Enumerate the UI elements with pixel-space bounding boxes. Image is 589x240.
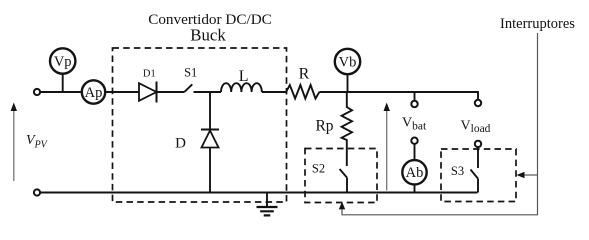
diode D: [201, 129, 219, 131]
wire bottom bus: [40, 192, 478, 194]
wire switch node to diode D: [209, 92, 211, 193]
S3 dashed box: [441, 149, 516, 202]
svg-text:D: D: [175, 136, 186, 152]
svg-text:L: L: [239, 68, 249, 85]
battery terminal lower circle: [411, 138, 417, 144]
svg-text:Vb: Vb: [339, 54, 357, 70]
control arrowhead to S2: [339, 202, 345, 210]
ground: [266, 193, 268, 208]
svg-text:Rp: Rp: [315, 118, 333, 135]
svg-text:S2: S2: [312, 162, 325, 176]
svg-text:Buck: Buck: [190, 26, 226, 45]
ammeter Ab: [402, 160, 426, 184]
voltmeter Vb stub: [347, 75, 349, 92]
switch S2: [340, 169, 347, 193]
svg-text:Vp: Vp: [54, 54, 72, 70]
battery terminal stub: [414, 92, 416, 101]
S2 dashed box: [305, 149, 377, 203]
svg-text:S3: S3: [451, 164, 464, 178]
wire to ammeter Ab: [414, 144, 416, 193]
converter dashed box: [113, 48, 287, 202]
load terminal top circle: [475, 100, 481, 106]
inductor L: [221, 83, 262, 92]
diode D1: [139, 83, 157, 101]
switch S3: [471, 147, 479, 192]
input terminal bottom: [34, 189, 40, 195]
control arrowhead to S3: [517, 172, 525, 178]
control line from Interruptores: [342, 33, 538, 215]
battery terminal top circle: [411, 101, 417, 107]
svg-text:R: R: [299, 66, 310, 83]
svg-text:D1: D1: [143, 69, 156, 80]
svg-text:Ab: Ab: [406, 165, 424, 181]
ammeter Ap: [82, 80, 105, 103]
svg-text:S1: S1: [184, 66, 197, 80]
voltmeter Vb: [335, 49, 360, 74]
input terminal top: [34, 89, 40, 95]
svg-text:Ap: Ap: [85, 85, 103, 101]
resistor R: [286, 85, 319, 99]
voltmeter Vp: [50, 48, 75, 73]
voltmeter Vp stub: [62, 74, 64, 92]
load terminal lower circle: [475, 141, 481, 147]
wire top bus: [40, 92, 478, 100]
switch S1: [185, 84, 193, 92]
svg-text:Interruptores: Interruptores: [500, 16, 575, 32]
control branch to S3: [523, 174, 538, 176]
arrow Vbat sense: [386, 109, 388, 191]
arrow VPV: [13, 109, 15, 181]
resistor Rp: [342, 92, 352, 166]
